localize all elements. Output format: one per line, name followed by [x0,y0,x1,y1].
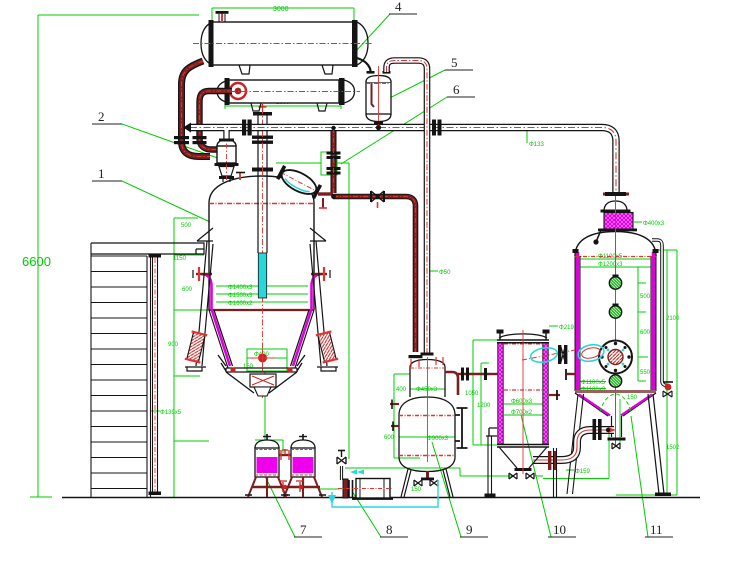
dimension 6600 left vertical [37,15,39,497]
tank right leg [310,228,338,371]
pump discharge green line to vessel10 valves [345,468,543,476]
SECTION: vessel 5 separator [366,66,391,130]
magenta lining right wall [293,274,322,366]
left bracket and leg [486,428,497,436]
tank top weld seam [209,203,314,205]
svg-text:1: 1 [98,166,105,181]
svg-text:10: 10 [553,522,566,537]
bottom valves [414,480,422,486]
bottom neck [612,416,622,437]
svg-text:150: 150 [411,487,422,493]
phi150 tick on S pipe [566,469,574,471]
green line tank bottom to filters [255,372,283,453]
right leg [554,448,557,497]
svg-text:Φ700x2: Φ700x2 [511,410,533,416]
SECTION: green dimension framework [30,8,677,497]
pump casing [343,479,348,498]
green line y163 left part [276,162,321,164]
discharge riser with valve [340,466,343,480]
svg-text:1502: 1502 [666,445,680,451]
discharge flange plate [218,355,305,393]
SECTION: item number labels [92,0,673,537]
dimension top horizontal [38,14,199,16]
tank right leg strut red [316,331,338,362]
exchanger1 right outlet elbow to vessel5 [357,58,371,72]
leader 6 [341,97,447,164]
standpipe next to ladder [149,255,162,496]
dim 3000 line above exchanger [212,8,354,60]
exchanger centerline ticks [283,22,287,103]
left nozzle [490,373,498,375]
sight glass small 2 [609,306,621,318]
svg-text:400: 400 [396,387,407,393]
filter A [255,440,279,448]
phi50 tick [430,270,438,272]
svg-text:550: 550 [640,370,651,376]
item 6 green box [321,152,349,175]
shell magenta walls [577,252,654,390]
riser pipe 2 (from exchanger2 left flange) [200,91,233,150]
phi400 tick evaporator neck [634,221,642,223]
center line [615,196,617,445]
svg-text:6600: 6600 [22,254,51,269]
magenta walls [498,343,503,444]
valve on external pipe [665,384,672,391]
sight glass small 1 [609,277,621,289]
svg-text:11: 11 [650,522,663,537]
dim 1600 under exchanger 2 [225,97,341,109]
leader 7 [262,470,295,537]
vertical pipe through item6 box [327,126,341,196]
svg-text:Φ219: Φ219 [559,325,574,331]
SECTION: cyan drain line [332,480,438,507]
svg-text:Φ1400x3: Φ1400x3 [228,285,253,291]
phi133 tick [526,128,528,143]
leader 11 [631,416,648,537]
svg-text:Φ600x3: Φ600x3 [511,399,533,405]
tank bottom discharge dim box [247,349,287,371]
sight lamp assembly [529,346,558,364]
svg-text:150: 150 [627,395,638,401]
svg-text:500: 500 [181,223,192,229]
svg-text:5: 5 [451,55,458,70]
filter B [291,440,315,448]
main sight glass with bolts [599,341,632,374]
SECTION: pump item 8 [328,450,393,504]
vessel10 dim extensions [473,340,543,445]
svg-text:7: 7 [300,522,307,537]
vessel5 dip tube [372,83,375,107]
evaporator dome [575,232,656,257]
svg-text:Φ400x3: Φ400x3 [643,221,665,227]
tank left leg [185,228,213,371]
motor [356,479,390,499]
leader 5 [380,70,445,103]
svg-text:6: 6 [453,82,460,97]
external circulation pipe right [652,240,667,386]
svg-text:Φ1100x5: Φ1100x5 [581,380,606,386]
svg-text:3000: 3000 [273,6,289,13]
right level gauge [461,408,463,448]
left upper nozzle [193,267,212,281]
svg-text:Φ139x5: Φ139x5 [160,410,182,416]
magenta lining left wall [201,274,230,366]
top cross pipe between filters [279,454,291,456]
tank cone [209,310,314,368]
svg-text:Φ1200x3: Φ1200x3 [598,262,623,268]
right neck elbow to vessel10 line [445,372,458,395]
tank center dashed line [262,170,264,399]
SECTION: S-pipe from vessel10 to evaporator bottom [533,419,616,470]
leader 2 [122,124,226,161]
vessel5 nozzle flanges [367,71,375,74]
svg-text:150: 150 [243,364,254,370]
svg-text:2: 2 [98,109,105,124]
long vertical green near pump [348,163,350,459]
ladder [91,243,151,497]
vessel5 bottom joins long pipe [376,125,381,130]
tee down to small vessel [223,130,229,140]
manway outlet short pipe [318,192,333,195]
evaporator legs [648,394,664,494]
nozzle marks on neck [411,359,419,367]
valves under cone on green line [509,473,517,479]
valve on line [371,191,384,202]
ground line [62,497,700,499]
body [399,397,455,415]
svg-text:Φ450x3: Φ450x3 [416,387,438,393]
cone [575,393,656,416]
SECTION: long vapour pipe to evaporator [183,120,616,193]
legs [401,469,453,497]
svg-text:Φ50: Φ50 [439,270,451,276]
exchanger 2 legs [251,103,327,111]
right mid nozzle [549,394,560,396]
small stub from dome top to valve line [322,198,324,208]
SECTION: green leader lines [122,14,648,537]
center and seams [522,330,524,474]
small nozzle stub on dome left of column [236,172,245,180]
riser pipe 1 (from exchanger1 left) [182,61,211,157]
leader 4 [345,14,390,63]
svg-text:600: 600 [640,330,651,336]
svg-text:4: 4 [395,0,402,14]
evaporator inner dims [580,259,651,389]
SECTION: inverted U pipe from vessel5 to vessel9 [387,61,434,356]
weld seams [575,256,656,258]
leader 1 [122,181,210,222]
filter to pump suction [318,488,339,490]
svg-text:Φ900x3: Φ900x3 [427,436,449,442]
tilted manway on dome [275,164,322,201]
riser flanges [174,136,189,139]
svg-text:1150: 1150 [173,256,187,262]
top bolts [500,332,546,340]
left dim chain [174,218,209,497]
cone [499,447,547,468]
neck dome [410,360,445,368]
svg-text:9: 9 [466,522,473,537]
SECTION: evaporator feed pipe top flange [605,192,626,196]
tank bottom seam maroon [209,309,314,311]
bottom flange [497,445,549,448]
right upper nozzle [311,267,330,281]
left side nozzles [390,403,399,405]
center ball [258,354,267,363]
discharge hinge pins [230,367,235,372]
svg-text:Φ1600x2: Φ1600x2 [228,301,253,307]
evaporator right dim verticals [616,250,677,495]
SECTION: vessel 10 column [485,330,606,498]
pipe end cap arrow left [183,123,191,133]
exchanger 1 shell [193,11,372,74]
magenta hatched neck [604,213,633,231]
exchanger 2 centerline [207,91,360,93]
tank diameter dims [216,286,308,302]
svg-text:Φ1500x3: Φ1500x3 [228,293,253,299]
ladder platform beam [91,243,204,254]
svg-text:1200: 1200 [477,403,491,409]
concentrate valve line to vessel 9 [331,191,422,358]
svg-text:2100: 2100 [666,316,680,322]
svg-text:Φ133: Φ133 [529,142,544,148]
leader 10 [521,415,551,537]
central column pipe [252,104,273,253]
top head [499,334,547,338]
exchanger 1 top nozzle [221,13,223,22]
exchanger 2 shell [207,78,360,111]
tank shell [209,203,314,310]
svg-text:1050: 1050 [465,391,479,397]
discharge swing arms [218,355,305,393]
flange pair on long pipe [242,120,246,136]
exchanger 2 left flange donut [230,83,246,99]
maroon flange on lower run [548,451,551,470]
bottom manifold [252,486,320,489]
SECTION: filters item 7 [245,434,326,497]
svg-text:900: 900 [168,342,179,348]
lifting pin on dome [593,239,598,244]
SECTION: green texts [22,6,680,493]
black flange pair on upper run [593,419,597,440]
phi219 tick [549,325,558,327]
sight glass small 3 [609,375,621,387]
svg-text:600: 600 [182,287,193,293]
svg-text:8: 8 [386,522,393,537]
pipe vessel9 to vessel10 [458,373,490,376]
exchanger 1 centerline [193,43,372,45]
svg-text:600: 600 [384,435,395,441]
tank left leg strut red [185,331,207,362]
vessel9 dim extensions [394,374,455,458]
exchanger 1 legs [239,65,333,74]
leader 8 [352,491,381,537]
discharge door box [250,374,276,387]
cyan suction arrows [350,470,364,475]
bottom outlet [426,471,429,479]
reducer dome under flange [604,201,627,211]
sight tube cyan inside tank [258,253,266,298]
SECTION: vessel 9 receiver [390,357,468,497]
SECTION: evaporator item 11 [543,196,673,496]
SECTION: small condenser vessel on tank dome (item 2 target) [215,133,239,182]
phi139 tick [150,410,160,412]
svg-text:Φ159: Φ159 [575,469,590,475]
leader 9 [432,442,461,537]
svg-text:500: 500 [640,294,651,300]
tank dome [209,176,314,203]
